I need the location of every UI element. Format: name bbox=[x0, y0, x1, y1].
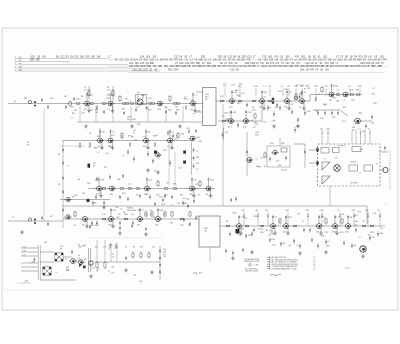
svg-text:47K: 47K bbox=[163, 150, 167, 152]
svg-text:47K: 47K bbox=[243, 127, 247, 129]
svg-text:L7: L7 bbox=[359, 129, 361, 131]
svg-text:COM: COM bbox=[22, 250, 27, 252]
svg-text:47K: 47K bbox=[252, 66, 256, 68]
svg-text:22K: 22K bbox=[87, 183, 91, 185]
svg-text:47K: 47K bbox=[278, 91, 282, 93]
svg-text:2N: 2N bbox=[70, 56, 73, 59]
svg-text:2N: 2N bbox=[306, 68, 309, 71]
svg-text:R4: R4 bbox=[133, 247, 135, 249]
svg-text:22K: 22K bbox=[213, 66, 217, 68]
svg-text:10K: 10K bbox=[254, 86, 258, 88]
svg-text:470: 470 bbox=[78, 260, 81, 262]
svg-text:47K: 47K bbox=[296, 126, 300, 128]
svg-text:C12: C12 bbox=[92, 268, 95, 270]
svg-text:12V: 12V bbox=[357, 211, 361, 213]
svg-text:1M: 1M bbox=[102, 132, 105, 134]
svg-text:10K: 10K bbox=[294, 86, 298, 88]
svg-text:L2: L2 bbox=[324, 158, 326, 160]
svg-text:47K: 47K bbox=[310, 68, 315, 71]
svg-text:DEMOD: DEMOD bbox=[350, 162, 357, 164]
svg-text:10K: 10K bbox=[144, 214, 148, 216]
svg-text:12V: 12V bbox=[82, 193, 86, 195]
svg-text:68K: 68K bbox=[344, 66, 348, 68]
svg-text:250: 250 bbox=[109, 245, 112, 247]
svg-text:10K: 10K bbox=[183, 66, 187, 68]
svg-text:68K: 68K bbox=[95, 225, 99, 227]
svg-text:12V: 12V bbox=[223, 84, 227, 86]
svg-text:Fig. 16: Fig. 16 bbox=[192, 271, 202, 275]
svg-text:10K: 10K bbox=[80, 56, 85, 59]
svg-text:COM: COM bbox=[22, 246, 27, 248]
svg-text:1M: 1M bbox=[315, 110, 318, 112]
svg-text:250: 250 bbox=[139, 281, 142, 283]
svg-text:470: 470 bbox=[276, 161, 279, 163]
svg-text:12V: 12V bbox=[223, 66, 227, 68]
svg-text:47K: 47K bbox=[128, 136, 132, 138]
svg-text:68K: 68K bbox=[141, 95, 145, 97]
svg-text:10K: 10K bbox=[96, 56, 101, 59]
svg-text:5K: 5K bbox=[115, 59, 118, 62]
svg-text:100: 100 bbox=[85, 56, 90, 59]
svg-text:36-16: 36-16 bbox=[345, 268, 350, 270]
svg-text:.001: .001 bbox=[186, 128, 190, 130]
svg-text:12V: 12V bbox=[245, 120, 249, 122]
svg-text:5K: 5K bbox=[169, 59, 172, 62]
svg-text:22K: 22K bbox=[281, 143, 285, 145]
svg-text:68K: 68K bbox=[94, 147, 98, 149]
svg-text:10K: 10K bbox=[378, 66, 382, 68]
svg-text:STEREO: STEREO bbox=[338, 145, 346, 147]
svg-text:.05: .05 bbox=[112, 256, 114, 258]
svg-text:L7: L7 bbox=[108, 271, 110, 273]
svg-text:12V: 12V bbox=[362, 131, 366, 133]
svg-text:C12: C12 bbox=[230, 68, 235, 71]
svg-text:10K: 10K bbox=[269, 230, 273, 232]
svg-text:= 1 MV: = 1 MV bbox=[253, 265, 259, 267]
svg-text:22K: 22K bbox=[352, 210, 356, 212]
svg-text:22K: 22K bbox=[210, 180, 214, 182]
svg-text:.05 1M: .05 1M bbox=[281, 170, 287, 172]
svg-text:22K: 22K bbox=[314, 86, 318, 88]
svg-text:22K: 22K bbox=[299, 66, 303, 68]
svg-text:R21: R21 bbox=[196, 157, 199, 159]
svg-text:T3: T3 bbox=[368, 129, 370, 131]
svg-text:L7: L7 bbox=[256, 159, 258, 161]
svg-text:68K: 68K bbox=[176, 110, 180, 112]
svg-text:33: 33 bbox=[96, 270, 98, 272]
svg-text:12V: 12V bbox=[192, 66, 196, 68]
svg-text:470: 470 bbox=[359, 149, 362, 151]
svg-text:TAKEN WITH VTVM: TAKEN WITH VTVM bbox=[244, 260, 260, 263]
svg-text:47K: 47K bbox=[320, 118, 324, 120]
svg-text:250: 250 bbox=[44, 242, 47, 244]
svg-text:SWITCH SHOWN IN FM POSITION: SWITCH SHOWN IN FM POSITION bbox=[272, 264, 299, 266]
svg-text:CR2: CR2 bbox=[163, 256, 166, 258]
svg-text:Q4: Q4 bbox=[268, 235, 271, 237]
svg-text:2N: 2N bbox=[326, 66, 329, 68]
svg-text:6.8: 6.8 bbox=[50, 216, 53, 218]
svg-text:68K: 68K bbox=[30, 59, 35, 62]
svg-text:22K: 22K bbox=[143, 146, 147, 148]
svg-text:12V: 12V bbox=[174, 66, 178, 68]
svg-text:100: 100 bbox=[196, 163, 199, 165]
svg-text:1M: 1M bbox=[336, 101, 339, 103]
svg-text:470: 470 bbox=[97, 136, 100, 138]
svg-text:DECODER: DECODER bbox=[127, 210, 137, 212]
svg-text:C12: C12 bbox=[60, 56, 65, 59]
svg-text:CR2: CR2 bbox=[326, 129, 330, 131]
svg-text:10K: 10K bbox=[90, 225, 94, 227]
svg-text:250: 250 bbox=[81, 113, 84, 115]
svg-text:C12: C12 bbox=[152, 247, 155, 249]
svg-text:22K: 22K bbox=[193, 189, 197, 191]
svg-text:6.8: 6.8 bbox=[27, 144, 30, 146]
svg-text:12V: 12V bbox=[342, 121, 346, 123]
svg-text:2N: 2N bbox=[188, 66, 191, 68]
svg-text:68K: 68K bbox=[235, 90, 239, 92]
svg-text:C12: C12 bbox=[119, 59, 124, 62]
svg-text:1M: 1M bbox=[290, 66, 293, 68]
svg-text:12V: 12V bbox=[229, 107, 233, 109]
svg-text:1M: 1M bbox=[325, 68, 328, 71]
svg-text:2N: 2N bbox=[236, 68, 239, 71]
svg-text:1M: 1M bbox=[351, 100, 354, 102]
svg-text:5K: 5K bbox=[56, 56, 59, 59]
svg-text:12V: 12V bbox=[148, 110, 152, 112]
svg-text:L2: L2 bbox=[56, 272, 58, 274]
svg-text:DE-EMPH: DE-EMPH bbox=[350, 183, 359, 185]
svg-text:22K: 22K bbox=[76, 99, 80, 101]
svg-text:C7: C7 bbox=[196, 169, 198, 171]
svg-text:7 2: 7 2 bbox=[313, 259, 315, 261]
svg-text:1M: 1M bbox=[117, 179, 120, 181]
svg-text:47K: 47K bbox=[233, 112, 237, 114]
svg-text:R4: R4 bbox=[84, 259, 86, 261]
svg-text:100: 100 bbox=[115, 247, 118, 249]
svg-text:2N: 2N bbox=[241, 229, 244, 231]
svg-text:68K: 68K bbox=[124, 214, 128, 216]
svg-text:50c: 50c bbox=[19, 63, 22, 65]
svg-text:R4: R4 bbox=[177, 203, 179, 205]
svg-text:R21: R21 bbox=[168, 68, 173, 71]
svg-text:CR2: CR2 bbox=[174, 68, 180, 71]
svg-text:12V: 12V bbox=[300, 85, 304, 87]
svg-text:33: 33 bbox=[261, 229, 263, 231]
svg-text:R21: R21 bbox=[161, 204, 164, 206]
svg-text:470: 470 bbox=[271, 234, 274, 236]
svg-text:1M: 1M bbox=[239, 84, 242, 86]
svg-text:DECODER: DECODER bbox=[127, 119, 137, 121]
svg-text:10K: 10K bbox=[213, 59, 218, 62]
svg-text:22K: 22K bbox=[220, 96, 224, 98]
svg-text:47K: 47K bbox=[234, 92, 238, 94]
svg-text:2 8: 2 8 bbox=[313, 262, 315, 264]
svg-text:12V: 12V bbox=[326, 245, 330, 247]
svg-text:47K: 47K bbox=[164, 59, 169, 62]
svg-text:22K: 22K bbox=[180, 225, 184, 227]
svg-text:R4: R4 bbox=[111, 273, 113, 275]
svg-text:12V: 12V bbox=[252, 109, 256, 111]
svg-text:22K: 22K bbox=[237, 103, 241, 105]
svg-text:22K: 22K bbox=[358, 86, 362, 88]
svg-text:6.8: 6.8 bbox=[261, 158, 264, 160]
svg-text:1M: 1M bbox=[64, 96, 67, 98]
svg-text:5K: 5K bbox=[344, 59, 347, 62]
svg-text:L7: L7 bbox=[359, 172, 361, 174]
svg-text:1M: 1M bbox=[160, 59, 163, 62]
svg-text:10K: 10K bbox=[380, 233, 384, 235]
svg-text:1M: 1M bbox=[353, 59, 356, 62]
svg-text:1M: 1M bbox=[348, 59, 351, 62]
svg-text:470: 470 bbox=[164, 107, 167, 109]
svg-text:.01: .01 bbox=[125, 247, 127, 249]
svg-text:R4: R4 bbox=[264, 166, 266, 168]
svg-text:10K: 10K bbox=[270, 66, 274, 68]
svg-text:L7: L7 bbox=[172, 205, 174, 207]
svg-text:CR2: CR2 bbox=[31, 262, 35, 264]
svg-text:100: 100 bbox=[91, 56, 96, 59]
svg-text:R4: R4 bbox=[90, 110, 92, 112]
svg-text:10K: 10K bbox=[198, 141, 202, 143]
svg-text:48V: 48V bbox=[19, 69, 23, 71]
svg-text:2N: 2N bbox=[230, 119, 233, 121]
svg-text:22K: 22K bbox=[78, 147, 82, 149]
svg-text:2N: 2N bbox=[255, 124, 258, 126]
svg-text:47K: 47K bbox=[101, 180, 105, 182]
svg-text:33: 33 bbox=[58, 154, 60, 156]
svg-text:470: 470 bbox=[140, 247, 143, 249]
svg-text:6.8: 6.8 bbox=[57, 257, 60, 259]
svg-text:R21: R21 bbox=[122, 193, 125, 195]
svg-text:22K: 22K bbox=[106, 98, 110, 100]
svg-text:10K: 10K bbox=[108, 225, 112, 227]
svg-text:33: 33 bbox=[89, 133, 91, 135]
svg-text:1M: 1M bbox=[316, 232, 319, 234]
svg-text:68K: 68K bbox=[226, 120, 230, 122]
svg-text:22K: 22K bbox=[191, 100, 195, 102]
svg-text:10K: 10K bbox=[300, 68, 305, 71]
svg-text:22K: 22K bbox=[137, 124, 141, 126]
svg-text:C12: C12 bbox=[320, 129, 323, 131]
svg-text:250: 250 bbox=[115, 207, 118, 209]
svg-text:48V: 48V bbox=[19, 66, 23, 68]
svg-text:33: 33 bbox=[60, 248, 62, 250]
svg-text:UNLESS NOTED: UNLESS NOTED bbox=[245, 271, 259, 273]
svg-text:T3: T3 bbox=[12, 217, 14, 219]
svg-text:10K: 10K bbox=[299, 94, 303, 96]
svg-text:R21: R21 bbox=[72, 113, 75, 115]
svg-text:Q4: Q4 bbox=[134, 275, 136, 277]
svg-text:C7: C7 bbox=[196, 151, 198, 153]
svg-text:6.8: 6.8 bbox=[78, 245, 81, 247]
svg-text:R21: R21 bbox=[95, 247, 98, 249]
svg-text:68K: 68K bbox=[309, 66, 313, 68]
svg-text:C12: C12 bbox=[74, 56, 79, 59]
svg-text:22K: 22K bbox=[275, 107, 279, 109]
svg-text:22K: 22K bbox=[373, 103, 377, 105]
svg-text:T3: T3 bbox=[376, 164, 378, 166]
svg-text:10K: 10K bbox=[36, 59, 41, 62]
svg-text:1M: 1M bbox=[284, 107, 287, 109]
svg-text:10K: 10K bbox=[321, 235, 325, 237]
svg-text:12V: 12V bbox=[129, 66, 133, 68]
